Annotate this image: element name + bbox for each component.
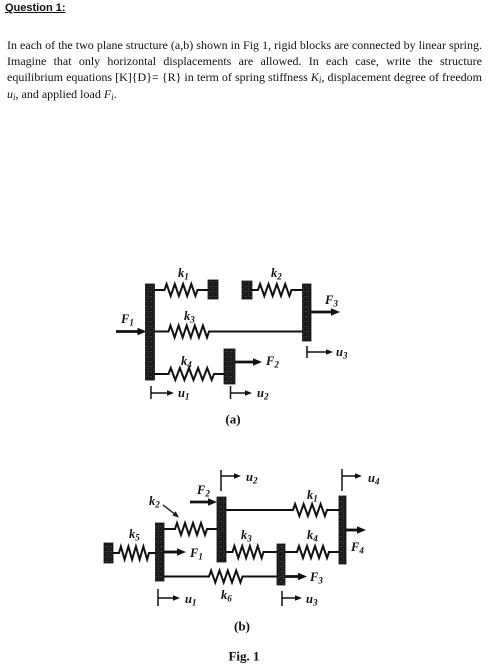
caption (a)	[225, 412, 240, 427]
spring k3 (b)	[226, 546, 277, 558]
label k2 (a)	[271, 266, 282, 282]
svg-text:F3: F3	[309, 570, 323, 586]
svg-text:k1: k1	[178, 266, 189, 282]
displacement marker u4 (b)	[342, 469, 362, 491]
label F2 (a)	[265, 354, 279, 370]
spring k4 (b)	[285, 546, 339, 558]
label F1 (a)	[120, 312, 134, 328]
spring k1 (b) with long wire from block B2	[226, 504, 339, 516]
label k4 (a)	[181, 354, 192, 370]
label u3 (b)	[306, 592, 318, 608]
label u1 (b)	[185, 592, 196, 608]
spring k3 (a) with long wire to right block	[155, 326, 303, 338]
label u1 (a)	[178, 386, 189, 402]
svg-text:u2: u2	[257, 386, 269, 402]
label u4 (b)	[368, 471, 380, 487]
displacement marker u3 (a)	[307, 346, 333, 358]
svg-text:u1: u1	[178, 386, 189, 402]
label F1 (b)	[189, 546, 203, 562]
svg-text:k2: k2	[271, 266, 282, 282]
spring k5 (b)	[113, 547, 156, 560]
svg-text:u1: u1	[185, 592, 196, 608]
svg-text:F1: F1	[189, 546, 203, 562]
displacement marker u2 (a)	[231, 386, 253, 399]
svg-text:F3: F3	[324, 293, 338, 309]
label u2 (a)	[257, 386, 269, 402]
svg-text:u3: u3	[336, 345, 348, 361]
pointer arrow from label k2 to spring (b)	[163, 505, 179, 518]
spring k4 (a)	[155, 368, 225, 380]
spring k1 (a)	[155, 284, 209, 296]
label u3 (a)	[336, 345, 348, 361]
force arrow F3 (b)	[285, 573, 307, 581]
svg-text:u3: u3	[306, 592, 318, 608]
force arrow F2 (b)	[190, 498, 217, 506]
svg-text:k5: k5	[129, 527, 140, 543]
block B3 (lower middle rigid block, diagram b)	[277, 544, 285, 585]
label k3 (b)	[241, 528, 252, 544]
svg-text:u2: u2	[246, 470, 258, 486]
block A-right (right rigid block, diagram a)	[303, 284, 312, 341]
block A-middle (u2 block, diagram a)	[224, 349, 235, 384]
label F3 (a)	[324, 293, 338, 309]
spring k2 (b)	[164, 523, 217, 535]
svg-text:k3: k3	[184, 309, 195, 325]
caption (b)	[234, 619, 250, 634]
fixed anchor block B-left (k5 left support)	[104, 543, 113, 563]
svg-text:k4: k4	[181, 354, 192, 370]
label k5 (b)	[129, 527, 140, 543]
spring k6 (b) with long wires to blocks B1 and B3	[164, 571, 277, 583]
fixed anchor block A-top-right (k2 left support)	[242, 281, 252, 299]
force arrow F2 (a)	[235, 358, 262, 366]
label k3 (a)	[184, 309, 195, 325]
block B4 (right rigid block, diagram b)	[339, 496, 346, 564]
label k1 (b)	[307, 488, 318, 504]
svg-text:F1: F1	[120, 312, 134, 328]
svg-text:(a): (a)	[225, 412, 240, 427]
svg-text:F4: F4	[350, 540, 364, 556]
label F2 (b)	[196, 483, 210, 499]
svg-text:(b): (b)	[234, 619, 250, 634]
label k2 (b)	[149, 494, 160, 510]
svg-text:Fig. 1: Fig. 1	[228, 649, 259, 664]
caption Fig. 1	[228, 649, 259, 664]
block A-left (main left rigid block, diagram a)	[146, 284, 155, 380]
force arrow F4 (b)	[346, 526, 366, 534]
displacement marker u2 (b)	[221, 470, 241, 491]
displacement marker u3 (b)	[282, 591, 302, 606]
force arrow F1 (b)	[164, 548, 186, 556]
fixed anchor block A-top-left (k1 right support)	[208, 280, 218, 299]
force arrow F3 (a)	[311, 308, 340, 316]
svg-text:k6: k6	[221, 588, 232, 604]
displacement marker u1 (b)	[158, 589, 180, 606]
svg-text:u4: u4	[368, 471, 380, 487]
svg-text:k2: k2	[149, 494, 160, 510]
label u2 (b)	[246, 470, 258, 486]
force arrow F1 (a)	[116, 328, 147, 336]
problem statement paragraph	[7, 37, 482, 103]
svg-text:k1: k1	[307, 488, 318, 504]
heading Question 1	[5, 2, 66, 14]
displacement marker u1 (a)	[151, 386, 174, 399]
label F3 (b)	[309, 570, 323, 586]
svg-text:F2: F2	[265, 354, 279, 370]
block B2 (upper middle rigid block, diagram b)	[217, 497, 226, 562]
label k4 (b)	[307, 528, 318, 544]
label F4 (b)	[350, 540, 364, 556]
spring k2 (a)	[252, 284, 303, 296]
label k1 (a)	[178, 266, 189, 282]
label k6 (b)	[221, 588, 232, 604]
svg-text:k3: k3	[241, 528, 252, 544]
svg-text:k4: k4	[307, 528, 318, 544]
block B1 (left rigid block, diagram b)	[156, 523, 165, 581]
svg-text:F2: F2	[196, 483, 210, 499]
